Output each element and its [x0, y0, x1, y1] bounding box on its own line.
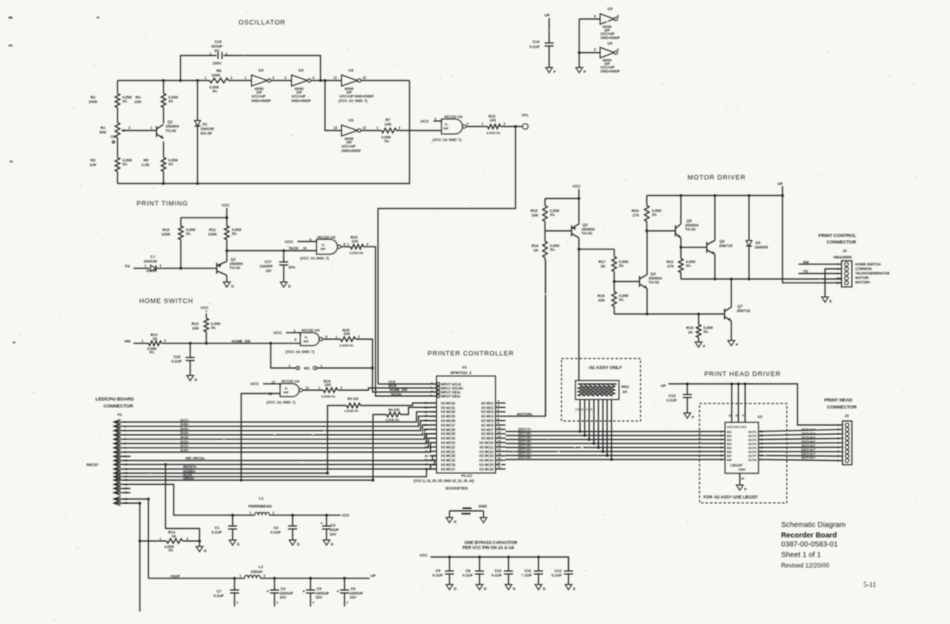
svg-text:HEADER5: HEADER5	[834, 256, 852, 260]
svg-text:CONNECTOR: CONNECTOR	[104, 404, 134, 409]
svg-text:RECD*: RECD*	[87, 463, 100, 467]
svg-text:UCC=UP: UCC=UP	[292, 95, 307, 99]
ground D below C10	[505, 585, 512, 590]
inverter U3 gate E (spare)	[600, 14, 614, 25]
svg-text:I/O MC5: I/O MC5	[481, 419, 493, 423]
svg-text:0387-00-0583-01: 0387-00-0583-01	[781, 540, 838, 549]
svg-text:0.1UF: 0.1UF	[530, 45, 541, 49]
wire: U4B output to R23	[341, 246, 351, 248]
svg-text:MOTOR+: MOTOR+	[855, 281, 870, 285]
svg-text:31: 31	[736, 414, 740, 418]
svg-text:16V: 16V	[266, 269, 273, 273]
svg-text:CONNECTOR: CONNECTOR	[827, 404, 857, 409]
svg-text:1: 1	[210, 52, 212, 56]
svg-text:C3: C3	[331, 524, 336, 528]
svg-text:5%: 5%	[150, 351, 155, 355]
wire: R22 to TP1	[501, 126, 523, 128]
svg-text:1: 1	[336, 335, 338, 339]
svg-text:2: 2	[277, 601, 279, 605]
svg-text:UCC=UP: UCC=UP	[252, 95, 267, 99]
resistor R6	[210, 78, 229, 83]
svg-text:2: 2	[160, 264, 162, 268]
wire: RN1 pull-up feed from motor driver	[578, 361, 580, 381]
svg-text:+: +	[337, 589, 340, 594]
svg-text:C1: C1	[215, 526, 220, 530]
svg-text:R1: R1	[101, 126, 106, 130]
svg-text:10: 10	[303, 247, 307, 251]
svg-text:P: P	[692, 415, 695, 419]
svg-text:9: 9	[310, 238, 312, 242]
svg-text:+: +	[267, 589, 270, 594]
scan noise speckles	[607, 21, 608, 22]
ground D below C17	[280, 282, 287, 287]
svg-text:11: 11	[306, 386, 310, 390]
svg-text:D: D	[454, 587, 457, 591]
svg-text:C15: C15	[215, 40, 222, 44]
svg-text:P: P	[554, 70, 557, 74]
svg-text:0.1UF: 0.1UF	[271, 531, 282, 535]
node: top rail junctions	[162, 79, 165, 82]
capacitor C4 (electrolytic)	[274, 578, 276, 589]
svg-text:11: 11	[498, 426, 502, 430]
resistor R16	[543, 241, 548, 257]
wire: Q4 base wire	[614, 281, 639, 283]
svg-text:DIP: DIP	[444, 127, 449, 131]
svg-text:HC132 U4: HC132 U4	[318, 236, 337, 240]
wire: Q4 emitter to bottom rail	[646, 289, 648, 315]
svg-text:5%: 5%	[169, 163, 174, 167]
svg-text:4: 4	[313, 76, 315, 80]
resistor R9	[347, 403, 361, 408]
wire: Q1 base wire from R1 wiper	[126, 130, 157, 132]
svg-text:D: D	[231, 284, 234, 288]
svg-text:1: 1	[250, 511, 252, 515]
capacitor C10 bypass	[508, 557, 510, 571]
wire: U4C output via R25	[323, 338, 341, 340]
svg-text:1: 1	[205, 76, 207, 80]
svg-text:2: 2	[231, 76, 233, 80]
svg-text:18: 18	[498, 452, 502, 456]
capacitor C6 (electrolytic)	[344, 578, 346, 589]
svg-text:D: D	[484, 587, 487, 591]
wire: left rail of oscillator	[117, 81, 119, 94]
svg-text:HC132 U4: HC132 U4	[445, 115, 464, 119]
svg-text:5%: 5%	[550, 248, 555, 252]
svg-text:R11: R11	[209, 228, 216, 232]
svg-text:5: 5	[295, 338, 297, 342]
svg-text:5%: 5%	[704, 330, 709, 334]
capacitor C15	[217, 52, 219, 59]
resistor R20	[646, 196, 648, 206]
svg-text:I/O MC30: I/O MC30	[441, 410, 455, 414]
ground D below J2 COMMON	[822, 297, 829, 302]
svg-text:PRINT HEAD: PRINT HEAD	[824, 397, 853, 402]
svg-text:+SUP: +SUP	[170, 574, 180, 578]
svg-text:2: 2	[504, 122, 506, 126]
wire: U4A output to R22	[466, 126, 488, 128]
ground D below C2	[289, 540, 296, 545]
svg-text:PLCC: PLCC	[462, 473, 473, 478]
svg-text:10K: 10K	[385, 122, 392, 126]
resistor R11	[226, 218, 228, 226]
svg-text:Recorder Board: Recorder Board	[781, 531, 837, 540]
svg-text:5%: 5%	[213, 90, 218, 94]
resistor R10	[180, 218, 182, 226]
svg-text:100K: 100K	[212, 74, 221, 78]
svg-text:0.25W 5%: 0.25W 5%	[322, 394, 336, 398]
svg-text:PRINT HEAD DRIVER: PRINT HEAD DRIVER	[704, 371, 781, 378]
svg-text:VCC: VCC	[342, 514, 350, 518]
svg-text:Q1: Q1	[168, 120, 173, 124]
svg-text:1: 1	[321, 364, 323, 368]
svg-text:5%: 5%	[169, 100, 174, 104]
svg-text:FERRIBEAD: FERRIBEAD	[248, 504, 271, 509]
capacitor C16	[189, 343, 191, 357]
svg-text:D: D	[513, 587, 516, 591]
svg-text:W1: W1	[304, 367, 310, 371]
svg-text:1: 1	[240, 574, 242, 578]
wire: VCC to R15	[545, 198, 579, 200]
wire: U4D output via R24	[303, 389, 324, 391]
potentiometer R1	[115, 123, 120, 138]
svg-text:1K: 1K	[153, 337, 158, 341]
svg-text:GND: GND	[739, 468, 747, 472]
ground D below Q2	[223, 282, 230, 287]
wire: HOMEn row to R9	[131, 406, 347, 474]
svg-text:MOTORn: MOTORn	[517, 413, 533, 417]
transistor Q7 (NPN)	[724, 309, 726, 320]
svg-text:1: 1	[377, 126, 379, 130]
resistor R13	[204, 318, 209, 331]
wire: HLDn row	[131, 469, 437, 477]
svg-text:CONNECTOR: CONNECTOR	[827, 240, 857, 245]
wire: MOTORn from U1 to motor driver	[506, 260, 546, 416]
svg-text:D: D	[288, 284, 291, 288]
svg-text:I/O MC26: I/O MC26	[441, 428, 455, 432]
svg-text:I/O MC17: I/O MC17	[441, 467, 455, 471]
svg-text:U3: U3	[349, 119, 354, 123]
resistor R19	[698, 314, 700, 325]
svg-text:12: 12	[363, 126, 367, 130]
svg-text:(VCC 3, 15, 25, 35; GND 10, 22: (VCC 3, 15, 25, 35; GND 10, 22, 30, 42)	[414, 479, 475, 483]
svg-text:I/O MC27: I/O MC27	[441, 423, 455, 427]
wire: Q7 emitter to ground	[730, 321, 732, 341]
svg-text:TO-92: TO-92	[230, 266, 241, 270]
svg-text:1: 1	[482, 122, 484, 126]
svg-text:(VCC: 14; GND: 7): (VCC: 14; GND: 7)	[433, 138, 462, 142]
svg-text:HC132 U4: HC132 U4	[302, 328, 321, 332]
ground D below C12	[565, 585, 572, 590]
svg-text:D: D	[573, 587, 576, 591]
svg-text:I/O MC8: I/O MC8	[481, 432, 493, 436]
svg-text:50K: 50K	[100, 131, 107, 135]
inverter U3 gate B	[292, 75, 308, 86]
node: TG line junction at R10	[179, 267, 182, 270]
wire: TACHn to U1	[364, 247, 437, 396]
svg-text:1K: 1K	[172, 535, 177, 539]
wire: RESETn row	[131, 465, 437, 469]
svg-text:0.1UF: 0.1UF	[667, 399, 678, 403]
svg-text:10UF: 10UF	[330, 528, 340, 532]
svg-text:+: +	[303, 589, 306, 594]
svg-text:DIP: DIP	[284, 391, 289, 395]
wire: MOTOR- rail to J2	[681, 278, 842, 280]
svg-text:13: 13	[498, 434, 502, 438]
inverter U3 gate D	[342, 125, 358, 136]
inverter U3 gate C	[342, 75, 358, 86]
wire: motor driver bottom rail (Q7 base)	[614, 313, 724, 315]
capacitor C8 bypass	[479, 557, 481, 571]
svg-text:U3: U3	[299, 69, 304, 73]
svg-text:2: 2	[313, 601, 315, 605]
svg-text:0.25W 5%: 0.25W 5%	[345, 409, 359, 413]
svg-text:TG: TG	[125, 265, 130, 269]
svg-text:TP1: TP1	[522, 114, 529, 118]
wire: feedback to gate D input	[325, 81, 342, 131]
svg-text:1: 1	[435, 117, 437, 121]
svg-text:I/O MC25: I/O MC25	[441, 432, 455, 436]
svg-text:PRINTER CONTROLLER: PRINTER CONTROLLER	[428, 351, 515, 358]
nand gate U4A HC132	[442, 119, 463, 134]
svg-text:C2: C2	[274, 526, 279, 530]
svg-text:2: 2	[273, 76, 275, 80]
svg-text:INPUT OE2n: INPUT OE2n	[441, 394, 460, 398]
svg-text:I/O MC1: I/O MC1	[481, 401, 493, 405]
svg-text:I/O MC32: I/O MC32	[441, 401, 455, 405]
svg-text:0.1UF: 0.1UF	[552, 573, 563, 577]
svg-text:5%: 5%	[123, 163, 128, 167]
svg-text:SOCKETED: SOCKETED	[446, 486, 468, 491]
scan speck marks	[9, 17, 13, 19]
svg-text:1N4148: 1N4148	[201, 127, 214, 131]
dashed box FOR -02 ASSY USE LB1257	[700, 404, 787, 503]
svg-text:R3: R3	[91, 159, 96, 163]
svg-text:38: 38	[425, 454, 429, 458]
svg-text:UCC=UP GND=GNDP: UCC=UP GND=GNDP	[340, 95, 375, 99]
svg-text:11: 11	[729, 414, 732, 418]
svg-text:R10: R10	[163, 228, 170, 232]
svg-text:2: 2	[399, 126, 401, 130]
svg-text:GND=GNDP: GND=GNDP	[252, 99, 272, 103]
svg-text:I/O MC16: I/O MC16	[479, 467, 493, 471]
svg-text:FOR -02 ASSY USE LB1257: FOR -02 ASSY USE LB1257	[704, 495, 759, 500]
svg-text:I/O MC29: I/O MC29	[441, 415, 455, 419]
wire: R7 to U4 pin2	[397, 130, 442, 132]
ground P below U2	[736, 485, 743, 490]
capacitor C13	[686, 384, 688, 394]
wire: R25 to HOME_SW input of U1	[356, 339, 437, 392]
wire: Q5 collector to UP rail	[680, 196, 682, 224]
svg-text:CW: CW	[111, 135, 116, 139]
svg-text:100K: 100K	[208, 233, 217, 237]
wire: RECD* to R14 step	[166, 465, 200, 542]
svg-text:2: 2	[358, 335, 360, 339]
svg-text:R9 100: R9 100	[348, 397, 359, 401]
wire: print-timing top rail	[181, 217, 227, 219]
svg-text:22K: 22K	[135, 100, 142, 104]
svg-text:HOME SWITCH: HOME SWITCH	[855, 263, 881, 267]
wire: collector node to R17	[579, 248, 614, 250]
svg-text:UP: UP	[371, 574, 377, 578]
capacitor C7	[234, 578, 236, 589]
svg-text:UP: UP	[661, 384, 667, 388]
svg-text:D: D	[204, 549, 207, 553]
svg-text:HOME_SW: HOME_SW	[232, 339, 251, 343]
svg-text:5%: 5%	[652, 213, 657, 217]
svg-text:2K: 2K	[601, 264, 606, 268]
svg-text:12K: 12K	[90, 163, 97, 167]
svg-text:DOT<0>*: DOT<0>*	[802, 456, 817, 460]
svg-text:EPM7032_3: EPM7032_3	[451, 371, 472, 375]
ground D below C8	[476, 585, 483, 590]
svg-text:270: 270	[633, 213, 639, 217]
svg-text:I/O MC9: I/O MC9	[481, 437, 493, 441]
svg-text:I/O MC18: I/O MC18	[441, 463, 455, 467]
svg-text:TACHn: TACHn	[391, 392, 402, 396]
ground D left of net tie	[446, 518, 453, 523]
svg-text:+: +	[321, 521, 324, 526]
svg-text:RN1: RN1	[622, 385, 630, 389]
ground D below C16	[187, 376, 194, 381]
svg-text:R4: R4	[136, 96, 142, 100]
svg-text:D: D	[331, 542, 334, 546]
svg-text:R2: R2	[91, 96, 96, 100]
wire: Q6 collector to UP rail	[714, 196, 716, 241]
svg-text:MOTOR-: MOTOR-	[855, 276, 870, 280]
svg-text:I/O MC14: I/O MC14	[479, 459, 493, 463]
capacitor C3	[326, 515, 328, 525]
wire: R20/Q4 node to Q5 base	[647, 230, 676, 232]
svg-text:1: 1	[160, 537, 162, 541]
resistor R15	[544, 199, 546, 206]
svg-text:0.1UF: 0.1UF	[214, 594, 225, 598]
resistor R3	[115, 158, 120, 172]
svg-text:I/O MC4: I/O MC4	[481, 415, 493, 419]
svg-text:P: P	[744, 487, 747, 491]
svg-text:MOTOR DRIVER: MOTOR DRIVER	[688, 175, 746, 182]
testpoint TP1	[523, 124, 529, 130]
svg-text:OSCILLATOR: OSCILLATOR	[239, 20, 286, 27]
wire: DOT<7:0> bus U1 to U2	[506, 431, 726, 433]
capacitor C5 bypass	[449, 557, 451, 571]
svg-text:10K: 10K	[598, 298, 605, 302]
svg-text:UCC: UCC	[285, 240, 293, 244]
ground D below C1	[229, 540, 236, 545]
capacitor C12 bypass	[568, 557, 570, 571]
svg-text:13: 13	[269, 392, 273, 396]
svg-text:100V: 100V	[213, 62, 222, 66]
svg-text:37: 37	[425, 449, 429, 453]
svg-text:D: D	[543, 587, 546, 591]
svg-text:GND=GNDP: GND=GNDP	[601, 36, 621, 40]
svg-text:12: 12	[498, 430, 502, 434]
svg-text:18: 18	[741, 477, 745, 481]
svg-text:I/O MC3: I/O MC3	[481, 410, 493, 414]
svg-text:0.25W 5%: 0.25W 5%	[340, 344, 354, 348]
svg-text:D: D	[195, 378, 198, 382]
resistor R4	[161, 94, 166, 108]
svg-text:U3: U3	[608, 7, 613, 11]
ground P below Q7	[728, 341, 735, 346]
svg-text:10: 10	[363, 76, 367, 80]
svg-text:1K: 1K	[534, 248, 539, 252]
svg-text:0.1UF: 0.1UF	[492, 573, 503, 577]
svg-text:0.1UF: 0.1UF	[433, 573, 444, 577]
svg-text:D: D	[237, 542, 240, 546]
svg-text:TACH: TACH	[289, 247, 299, 251]
wire: MOTOR- into J2 pin4	[836, 277, 842, 280]
svg-text:100: 100	[490, 119, 496, 123]
svg-text:UP: UP	[545, 14, 551, 18]
svg-text:2: 2	[226, 52, 228, 56]
svg-text:TO-92: TO-92	[582, 232, 593, 236]
wire: WR_RECDn row	[131, 456, 437, 461]
svg-text:1: 1	[142, 339, 144, 343]
svg-text:J3: J3	[845, 414, 849, 418]
ground D below C3	[323, 540, 330, 545]
resistor network RN1	[575, 381, 619, 400]
resistor R24	[323, 388, 337, 393]
dashed box -02 ASSY ONLY	[562, 359, 641, 422]
svg-text:GND=GNDP: GND=GNDP	[292, 99, 312, 103]
svg-text:270: 270	[667, 264, 673, 268]
ground D below R14	[199, 541, 201, 547]
svg-text:8: 8	[344, 243, 346, 247]
svg-text:C7: C7	[217, 590, 222, 594]
wire: second column rail (R4/Q1/R5)	[163, 81, 165, 94]
resistor R18	[613, 282, 615, 292]
wire: Q3 base node	[545, 230, 572, 232]
svg-text:Sheet 1 of 1: Sheet 1 of 1	[781, 550, 821, 559]
svg-text:UCC: UCC	[421, 120, 429, 124]
ground right of net tie	[480, 518, 487, 523]
svg-text:5%: 5%	[186, 232, 191, 236]
wire: P1 pin16 to L1 feed	[131, 484, 230, 515]
svg-text:16: 16	[498, 443, 502, 447]
svg-text:5%: 5%	[169, 549, 174, 553]
svg-text:LED/CPU BOARD: LED/CPU BOARD	[96, 397, 135, 402]
svg-text:TG: TG	[803, 269, 808, 273]
svg-text:100: 100	[344, 332, 350, 336]
transistor Q5 (NPN)	[674, 225, 676, 236]
svg-text:GND=GNDP: GND=GNDP	[342, 149, 362, 153]
svg-text:0.1UF: 0.1UF	[463, 573, 474, 577]
ground D below C11	[535, 585, 542, 590]
svg-text:16V: 16V	[316, 596, 323, 600]
wire: J2 COMMON to ground	[825, 269, 842, 297]
svg-text:UC2 UC1 UC1: UC2 UC1 UC1	[727, 425, 747, 429]
svg-text:I/O MC28: I/O MC28	[441, 419, 455, 423]
wire: DMDIn row to R8	[131, 415, 387, 481]
svg-text:2: 2	[164, 339, 166, 343]
svg-text:5%: 5%	[211, 326, 216, 330]
svg-text:5%: 5%	[123, 100, 128, 104]
svg-text:C14: C14	[533, 40, 541, 44]
svg-text:UP: UP	[778, 182, 784, 186]
svg-text:R6: R6	[217, 69, 222, 73]
wire: U2 ground pin	[739, 473, 741, 485]
svg-text:Schematic Diagram: Schematic Diagram	[781, 520, 845, 529]
svg-text:100K: 100K	[162, 233, 171, 237]
nand gate U4B HC132	[317, 239, 338, 254]
svg-text:2: 2	[341, 386, 343, 390]
svg-text:2: 2	[187, 537, 189, 541]
wire: Q2 collector to ground	[226, 275, 228, 282]
wire: oscillator bottom rail / feedback	[118, 81, 410, 184]
svg-text:5%: 5%	[215, 49, 220, 53]
svg-text:10K: 10K	[532, 213, 539, 217]
ground P below spare-gate rail	[576, 68, 583, 73]
